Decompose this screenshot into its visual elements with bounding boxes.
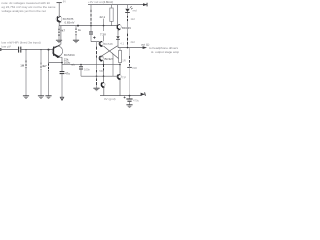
wire to Q2 base bbox=[21, 49, 54, 51]
resistor R9 1M x26 bbox=[25, 50, 27, 60]
wire Q6 collector bbox=[119, 65, 121, 75]
svg-text:1M: 1M bbox=[20, 63, 25, 67]
svg-text:470u: 470u bbox=[133, 99, 139, 103]
capacitor C3 x62 bbox=[60, 72, 65, 74]
resistor R4 box x111.5 from rail bbox=[111, 5, 113, 8]
ground x48.5 bbox=[45, 96, 51, 99]
wire input bbox=[1, 49, 18, 51]
resistor R11 x48.5 bbox=[48, 63, 50, 70]
svg-text:n/c: n/c bbox=[71, 63, 75, 67]
svg-text:4k7: 4k7 bbox=[42, 64, 47, 68]
svg-text:st. output stage amp: st. output stage amp bbox=[151, 50, 179, 54]
transistor Q6 bbox=[117, 74, 122, 79]
wire Q5 emitter / diode D2 bbox=[117, 29, 119, 35]
svg-text:2k2: 2k2 bbox=[131, 40, 136, 44]
svg-text:1k2: 1k2 bbox=[131, 17, 136, 21]
ground under R2 bbox=[73, 40, 79, 43]
wire bottom rail 0V bbox=[100, 95, 142, 97]
wire X crossing bbox=[104, 46, 119, 59]
wire Q2 emitter down bbox=[60, 56, 62, 58]
transistor Q3 bbox=[99, 41, 104, 46]
svg-text:BC548: BC548 bbox=[104, 42, 113, 46]
svg-text:100n: 100n bbox=[84, 67, 90, 71]
wire Q1 collector bbox=[58, 3, 60, 17]
svg-text:BC549C: BC549C bbox=[64, 53, 75, 57]
node junction R11 bbox=[48, 49, 50, 51]
input text bbox=[2, 41, 41, 49]
node 0V terminal arrow bbox=[141, 93, 145, 96]
svg-text:1R: 1R bbox=[122, 58, 125, 62]
wire feedback y76 bbox=[81, 75, 117, 77]
resistor R7 x120 (box) bbox=[119, 48, 121, 51]
transistor Q1 bbox=[56, 16, 62, 22]
wire Q1 emitter down bbox=[58, 22, 60, 26]
wire to Q3 base bbox=[91, 41, 99, 43]
wire +9V rail bbox=[88, 4, 145, 6]
svg-text:0.65mV: 0.65mV bbox=[65, 21, 75, 25]
resistor R2 x76 bbox=[75, 28, 77, 35]
node input terminal bbox=[0, 48, 2, 51]
note text block top-left bbox=[2, 1, 56, 13]
ground x41 bbox=[38, 96, 44, 99]
wire Q2 collector up bbox=[60, 26, 62, 45]
wire Q6 emitter bbox=[119, 79, 121, 96]
transistor Q5 bbox=[116, 24, 121, 30]
transistor Q7 x103.5 lower bbox=[103, 76, 105, 82]
resistor R10 x41 bbox=[40, 50, 42, 62]
node junction R9 bbox=[25, 49, 26, 50]
wire output node y47.5 bbox=[118, 47, 144, 49]
resistor R12 x129.5 mid bbox=[129, 48, 131, 56]
ground under R1 bbox=[56, 40, 62, 43]
svg-text:560: 560 bbox=[99, 69, 104, 73]
ground C5 bbox=[126, 105, 132, 108]
resistor R3 x91 from rail to node A bbox=[90, 5, 92, 9]
svg-text:4.1: 4.1 bbox=[120, 41, 124, 45]
ground arrow x62 bbox=[60, 97, 64, 100]
ground x26 bbox=[23, 96, 29, 99]
wire node A horizontal y25.5 bbox=[59, 25, 117, 27]
capacitor C5 below rail bbox=[129, 95, 131, 97]
node plus mark bbox=[93, 36, 95, 38]
svg-text:voltage analysis yet from the: voltage analysis yet from the net bbox=[2, 9, 47, 13]
ground chain x96.5 bbox=[93, 88, 99, 91]
svg-text:BD139: BD139 bbox=[122, 26, 131, 30]
node V+ tick for Q1 bbox=[57, 2, 62, 4]
chain x96.5 feedback divider bbox=[96, 42, 98, 46]
svg-text:100u: 100u bbox=[64, 61, 71, 65]
svg-text:10k: 10k bbox=[100, 54, 105, 58]
wire Q4 emitter down x103.5 bbox=[103, 60, 105, 64]
svg-text:7.3V: 7.3V bbox=[100, 32, 106, 36]
wire emitter to R11 bbox=[49, 62, 63, 64]
node output terminal arrow bbox=[143, 46, 147, 49]
transistor Q4 bbox=[99, 56, 104, 61]
svg-text:BC327: BC327 bbox=[105, 57, 114, 61]
resistor R5 below LED bbox=[127, 13, 129, 16]
wire x113 bbox=[112, 53, 113, 55]
resistor R1 x59 bbox=[58, 29, 60, 36]
resistor R8 x103.5 bbox=[103, 65, 105, 71]
svg-text:TIP: TIP bbox=[122, 75, 126, 79]
svg-text:low μV: low μV bbox=[2, 45, 12, 49]
svg-text:red: red bbox=[133, 8, 137, 12]
svg-text:9V: 9V bbox=[63, 0, 66, 3]
resistor R6 x127.5 mid bbox=[127, 33, 129, 44]
svg-text:47u: 47u bbox=[65, 72, 70, 76]
transistor Q2 (input, large) bbox=[52, 45, 62, 58]
svg-text:0V (gnd): 0V (gnd) bbox=[104, 97, 116, 101]
svg-text:+9V rail at (4.8mA): +9V rail at (4.8mA) bbox=[88, 0, 113, 4]
node +9V terminal arrow bbox=[143, 3, 148, 7]
node junction R10 bbox=[40, 49, 41, 50]
svg-text:33R: 33R bbox=[132, 66, 137, 70]
wire base node to R11 bbox=[48, 50, 50, 64]
wire y64.5 long bbox=[62, 64, 120, 66]
capacitor C1 input bbox=[19, 47, 21, 53]
capacitor C4 x81 bbox=[80, 65, 82, 67]
wire Q5 collector from rail bbox=[117, 5, 119, 24]
capacitor C2 x91 below node A bbox=[90, 26, 92, 32]
svg-text:22.1: 22.1 bbox=[100, 15, 106, 19]
LED D1 bbox=[127, 5, 129, 9]
node junction dot wire y25.5 x78 bbox=[77, 25, 79, 27]
+9V rail label bbox=[88, 0, 113, 4]
text to headphone driver bbox=[149, 46, 179, 54]
